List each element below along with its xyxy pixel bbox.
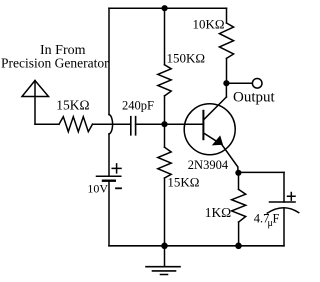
resistor R2 150K zigzag <box>158 65 171 96</box>
capacitor plus sign <box>288 193 296 201</box>
resistor R1 10K zigzag <box>219 23 233 58</box>
input antenna mast <box>34 81 36 125</box>
wire capacitor bottom lead <box>283 209 285 246</box>
svg-text:240pF: 240pF <box>122 98 154 112</box>
capacitor C2 4.7uF curved plate <box>267 208 298 213</box>
wire bottom rail <box>109 245 284 247</box>
label 4.7uF value <box>254 212 280 229</box>
junction dot top rail <box>162 5 168 11</box>
wire input to 15K horizontal <box>35 123 59 125</box>
junction emitter node dot <box>235 170 241 176</box>
battery plus sign <box>112 164 121 173</box>
wire middle vertical top segment <box>164 8 166 65</box>
svg-text:10V: 10V <box>87 181 108 195</box>
input antenna triangle <box>22 81 49 97</box>
label 150K value <box>167 50 206 65</box>
wire 10K to collector node <box>226 58 228 83</box>
junction 1K bottom dot <box>235 243 242 250</box>
resistor R4 1K zigzag <box>232 189 246 222</box>
svg-text:10KΩ: 10KΩ <box>193 17 225 32</box>
svg-text:2N3904: 2N3904 <box>188 158 229 172</box>
label Precision Generator <box>1 55 109 70</box>
wire emitter node to capacitor <box>238 171 284 173</box>
label 1K value <box>205 205 232 220</box>
wire 240pF to node A <box>136 123 165 125</box>
svg-text:1KΩ: 1KΩ <box>205 205 232 220</box>
wire 1K to bottom rail <box>238 222 240 246</box>
wire emitter node to 1K <box>238 173 240 190</box>
label In From <box>40 43 86 58</box>
label 2N3904 <box>188 158 229 172</box>
wire node A to 15K vertical <box>164 124 166 147</box>
junction ground node dot <box>161 243 168 250</box>
wire left rail lower to battery <box>108 134 110 176</box>
wire output lead <box>227 82 253 84</box>
transistor Q1 emitter arrowhead <box>212 135 223 145</box>
transistor Q1 circle <box>184 104 235 155</box>
label 10V value <box>87 181 108 195</box>
junction collector node dot <box>223 80 229 86</box>
wire 10K top stub <box>226 8 228 23</box>
junction node A dot <box>161 121 167 127</box>
resistor R3 15K vertical zigzag <box>158 147 171 178</box>
svg-text:F: F <box>273 212 280 226</box>
resistor R5 15K horizontal zigzag <box>59 117 93 132</box>
battery B1 long plate (+) <box>97 175 121 177</box>
label 240pF value <box>122 98 154 112</box>
wire base from node A <box>165 123 204 125</box>
output terminal circle <box>252 79 262 89</box>
label 15K horizontal value <box>56 97 89 112</box>
capacitor C1 240pF plates <box>131 117 136 135</box>
wire capacitor top lead <box>283 172 285 202</box>
svg-text:150KΩ: 150KΩ <box>167 50 206 65</box>
wire crossover hop on left rail <box>109 115 113 135</box>
ground symbol <box>146 267 180 275</box>
svg-text:Precision Generator: Precision Generator <box>1 55 109 70</box>
label Output <box>233 90 276 106</box>
wire 15K horizontal to 240pF <box>93 123 131 125</box>
battery B1 short plate (-) <box>103 179 115 181</box>
battery minus sign <box>116 187 121 189</box>
wire ground stub <box>164 246 166 267</box>
capacitor C2 4.7uF top plate <box>270 201 296 203</box>
label 15K vertical value <box>167 175 199 190</box>
transistor Q1 base bar <box>202 111 204 139</box>
transistor Q1 collector diagonal <box>204 97 227 120</box>
label 10K value <box>193 17 225 32</box>
wire battery to bottom rail <box>108 182 110 246</box>
svg-text:15KΩ: 15KΩ <box>167 175 199 190</box>
wire top rail <box>109 7 227 9</box>
svg-text:15KΩ: 15KΩ <box>56 97 89 112</box>
svg-text:Output: Output <box>233 90 276 106</box>
transistor Q1 emitter diagonal <box>204 133 238 173</box>
wire 15K vertical to bottom rail <box>164 178 166 246</box>
wire left rail upper <box>108 8 110 114</box>
wire 150K to node A <box>164 96 166 124</box>
wire collector vertical <box>225 83 227 97</box>
